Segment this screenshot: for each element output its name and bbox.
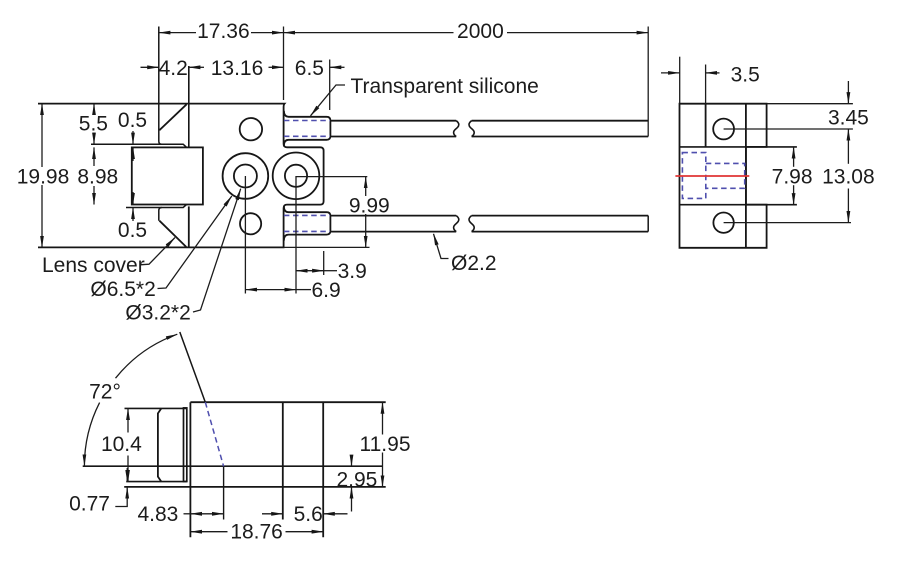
front body edge below lens [188, 206, 190, 247]
side top edge extension to 3.45 [767, 103, 853, 105]
leader dia 3.2*2 [193, 189, 241, 312]
svg-text:17.36: 17.36 [197, 20, 250, 43]
svg-text:0.77: 0.77 [69, 493, 110, 516]
dim 3.9 extension from right lens center [295, 176, 297, 294]
dim 0.77 upper arrow [126, 468, 128, 481]
leader Lens cover [140, 238, 175, 265]
72 degree line solid part [180, 332, 206, 402]
dim 3.9 line with arrows [296, 270, 324, 272]
optical axis red line [675, 175, 749, 177]
lens cover top left edge [159, 27, 162, 145]
bottom view body right edge with extension below [322, 402, 324, 537]
svg-text:4.2: 4.2 [159, 57, 188, 80]
lens cover bottom chamfer diagonal [159, 221, 186, 247]
dim 2000 right extension / cable end cap [647, 27, 649, 137]
dim 3.5 right arrow [706, 72, 720, 74]
left lens inner circle (Ø3.2) [234, 165, 257, 188]
dim 11.95 line upper arrow [382, 402, 384, 434]
dim 9.99 extension from right lens center [296, 176, 367, 178]
bottom mounting hole [240, 213, 261, 234]
svg-text:8.98: 8.98 [77, 166, 118, 189]
svg-text:3.5: 3.5 [731, 63, 760, 86]
bottom boot silicone hidden line lower [284, 230, 330, 232]
dim 3.5 extension left [679, 57, 681, 104]
svg-text:3.45: 3.45 [828, 107, 869, 130]
right lens inner circle (Ø3.2) [285, 165, 307, 187]
dim 10.4 line upper arrow [127, 408, 129, 432]
front body edge above lens [188, 66, 190, 147]
svg-text:2000: 2000 [457, 20, 504, 43]
right lens barrel outer circle (Ø6.5) [273, 153, 320, 200]
top cable upper line right segment [472, 120, 649, 122]
svg-text:4.83: 4.83 [137, 503, 178, 526]
svg-text:Ø3.2*2: Ø3.2*2 [125, 302, 190, 325]
dim 17.36 extension left [158, 27, 160, 59]
dim 11.95 line lower arrow [382, 453, 384, 487]
dim 7.98 line lower arrow [793, 185, 795, 205]
top cable lower line right segment [472, 136, 649, 138]
svg-text:2.95: 2.95 [336, 469, 377, 492]
dim 0.77 lower arrow with elbow tail [115, 487, 127, 507]
svg-text:13.08: 13.08 [822, 165, 875, 188]
lens cover bottom left edge [159, 208, 162, 221]
top cable lower line left segment [330, 136, 456, 138]
dim 0.5 top lower arrow [132, 147, 134, 161]
bottom cable break squiggle right [469, 216, 474, 232]
dim 4.2 left tail arrow [141, 66, 159, 68]
dim 0.5 bottom upper arrow [132, 192, 134, 205]
bottom view lens bottom edge with extension [126, 481, 187, 483]
dim 13.16 right arrow [269, 66, 284, 68]
dim 3.9 tail [324, 270, 337, 272]
svg-text:0.5: 0.5 [118, 219, 147, 242]
dim 17.36/2000 shared extension [283, 27, 285, 101]
dim 17.36 line [159, 32, 196, 34]
dim 0.5 bottom lower arrow [132, 208, 134, 222]
dim 4.2 right arrow [189, 66, 204, 68]
bottom cable upper line left segment [330, 215, 456, 217]
top hole center extension line [724, 128, 853, 130]
bottom view body left edge with extension below [189, 402, 191, 537]
bottom view lens cover plate bar [184, 408, 187, 482]
dim 6.9 tail [296, 289, 311, 291]
bottom cable break squiggle left [454, 216, 459, 232]
svg-text:6.5: 6.5 [295, 57, 324, 80]
svg-text:3.9: 3.9 [338, 260, 367, 283]
side view hidden bore rect [706, 163, 745, 188]
svg-text:18.76: 18.76 [230, 521, 283, 544]
72 degree dimension arc lower segment [84, 403, 99, 466]
side view outline [680, 104, 767, 248]
dim 6.5 right extension [329, 60, 331, 111]
lens cover bottom lip line [126, 205, 187, 208]
dim 7.98 line upper arrow [793, 147, 795, 167]
dim 19.98 line [41, 104, 43, 167]
72 degree chamfer hidden line dashed [205, 402, 223, 466]
dim 6.9 extension from left lens center [244, 176, 246, 294]
bottom cable end cap [647, 216, 649, 232]
leader dia 6.5*2 [158, 196, 232, 289]
bottom edge extension for 9.99 [284, 246, 370, 248]
dim 5.5 line [93, 104, 95, 114]
side view bottom hole [713, 213, 733, 233]
svg-text:6.9: 6.9 [311, 279, 340, 302]
svg-text:10.4: 10.4 [101, 433, 142, 456]
dim 5.6 right arrow [323, 513, 347, 515]
dim 18.76 line [190, 531, 227, 533]
dim 13.08 line upper arrow [847, 129, 849, 164]
top cable upper line left segment [330, 120, 456, 122]
left lens barrel outer circle (Ø6.5) [223, 153, 269, 199]
svg-text:9.99: 9.99 [349, 194, 390, 217]
svg-text:Transparent silicone: Transparent silicone [351, 75, 539, 98]
top cable break squiggle right [469, 121, 474, 137]
svg-text:Lens cover: Lens cover [42, 254, 145, 277]
dim 4.83 tail [184, 513, 191, 515]
svg-text:Ø2.2: Ø2.2 [451, 252, 497, 275]
front lens block [132, 147, 203, 204]
bottom cable boot [284, 206, 331, 240]
72 degree dimension arc upper segment [116, 334, 178, 378]
top cable break squiggle left [454, 121, 459, 137]
lens cover top chamfer diagonal [159, 104, 186, 130]
dim 6.9 line with arrows [245, 289, 296, 291]
svg-text:Ø6.5*2: Ø6.5*2 [90, 278, 155, 301]
svg-text:0.5: 0.5 [118, 109, 147, 132]
top mounting hole [240, 118, 262, 140]
dim 2.95 lower arrow [351, 487, 353, 512]
top boot silicone hidden line lower [284, 135, 330, 137]
leader dia 2.2 [434, 234, 449, 259]
leader Transparent silicone [311, 85, 346, 116]
svg-text:11.95: 11.95 [360, 433, 411, 456]
dim 3.5 extension right [705, 65, 707, 104]
dim 13.08 line lower arrow [847, 189, 849, 223]
svg-text:5.5: 5.5 [79, 113, 108, 136]
bottom cable lower line right segment [472, 231, 649, 233]
bottom cable lower line left segment [330, 231, 456, 233]
bottom boot silicone hidden line upper [284, 214, 330, 216]
dim 8.98 line [93, 147, 95, 166]
lens cover top lip line [91, 144, 187, 147]
svg-text:72°: 72° [89, 380, 121, 403]
dim 2.95 upper arrow [351, 456, 353, 467]
svg-text:7.98: 7.98 [772, 165, 813, 188]
bottom cable upper line right segment [472, 215, 649, 217]
dim 9.99 line [365, 177, 367, 196]
front view body outline with cable relief steps [38, 104, 324, 248]
bottom view body top edge with extension [190, 401, 385, 403]
bottom view internal vertical with extension below [282, 402, 284, 519]
dim 3.5 left tail arrow [661, 72, 680, 74]
dim 3.45 top arrow [847, 81, 849, 104]
bottom view lens left edge with corner chamfers [158, 408, 161, 481]
bottom view body bottom edge with extension [124, 486, 386, 488]
dim 6.5 right arrow [330, 66, 345, 68]
dim 10.4 line lower arrow [127, 456, 129, 482]
svg-text:13.16: 13.16 [211, 57, 264, 80]
bottom hole center extension line [724, 222, 851, 224]
side view top hole [713, 119, 734, 140]
top cable boot [284, 111, 331, 146]
side view internal edge between clamp halves top [705, 104, 707, 147]
bottom view step line / angle horizontal leg [83, 465, 383, 467]
top boot silicone hidden line upper [284, 120, 330, 122]
side view hidden lens window rect [682, 153, 705, 199]
dim 5.6 left arrow [262, 513, 283, 515]
side view internal vertical full height [745, 104, 747, 248]
bottom view lens top edge with extension [125, 407, 187, 409]
dim 2000 line [284, 32, 454, 34]
dim 4.83 line with arrows [190, 513, 223, 515]
side view horizontal edge lower [680, 204, 797, 206]
bottom view chamfer edge solid vertical [223, 466, 225, 519]
svg-text:5.6: 5.6 [294, 503, 323, 526]
side view horizontal edge upper [680, 146, 797, 148]
dim 3.9 extension right [323, 251, 325, 275]
dim 0.5 top upper arrow [132, 131, 134, 144]
svg-text:19.98: 19.98 [17, 166, 70, 189]
